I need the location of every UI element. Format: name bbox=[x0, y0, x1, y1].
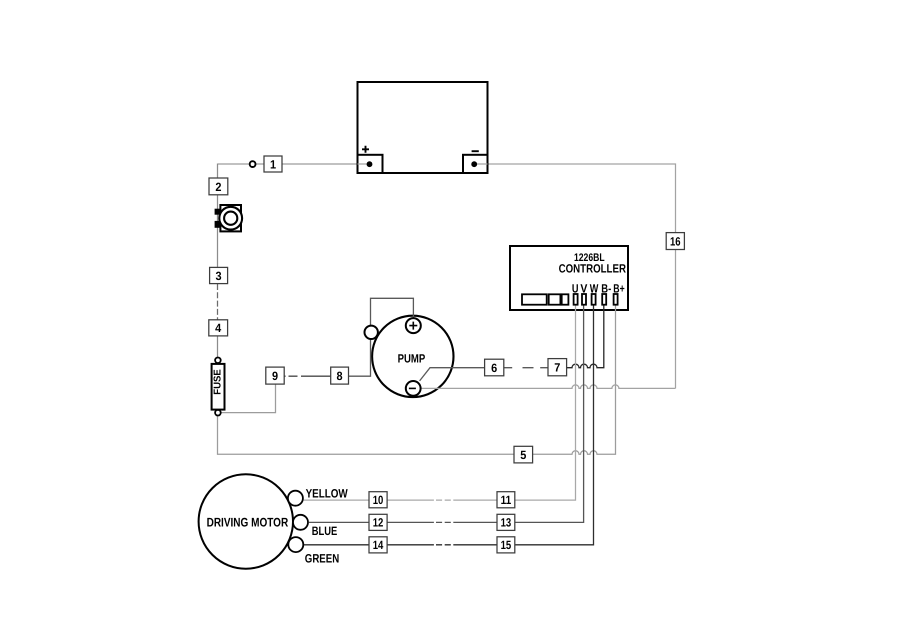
svg-text:3: 3 bbox=[216, 269, 222, 283]
svg-text:BLUE: BLUE bbox=[312, 524, 338, 538]
svg-text:6: 6 bbox=[491, 361, 497, 375]
svg-text:8: 8 bbox=[337, 369, 343, 383]
svg-text:11: 11 bbox=[501, 493, 512, 507]
svg-text:1: 1 bbox=[270, 157, 276, 171]
svg-text:16: 16 bbox=[670, 234, 681, 248]
svg-text:13: 13 bbox=[501, 516, 512, 530]
svg-text:PUMP: PUMP bbox=[398, 351, 426, 365]
svg-text:12: 12 bbox=[373, 516, 384, 530]
svg-text:CONTROLLER: CONTROLLER bbox=[559, 262, 627, 276]
svg-text:GREEN: GREEN bbox=[305, 551, 339, 565]
svg-text:FUSE: FUSE bbox=[213, 369, 224, 395]
svg-text:YELLOW: YELLOW bbox=[306, 486, 348, 500]
svg-text:2: 2 bbox=[215, 180, 221, 194]
svg-text:15: 15 bbox=[501, 538, 512, 552]
svg-text:4: 4 bbox=[215, 321, 221, 335]
svg-text:7: 7 bbox=[554, 361, 560, 375]
svg-text:5: 5 bbox=[520, 448, 526, 462]
svg-text:14: 14 bbox=[373, 538, 384, 552]
svg-text:9: 9 bbox=[272, 369, 278, 383]
svg-text:DRIVING MOTOR: DRIVING MOTOR bbox=[207, 515, 289, 529]
svg-text:10: 10 bbox=[373, 493, 384, 507]
